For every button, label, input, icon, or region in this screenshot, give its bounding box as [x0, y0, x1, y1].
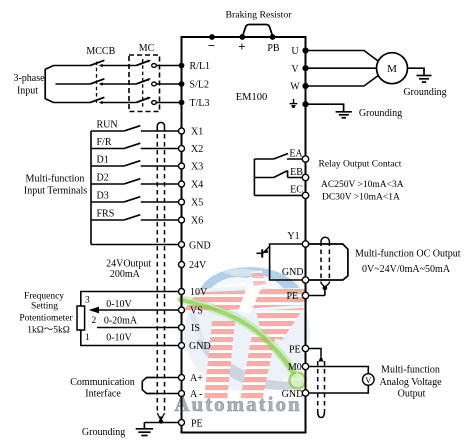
terminal PB [270, 34, 276, 40]
contactor MC pole 2 [136, 78, 181, 86]
svg-text:Setting: Setting [31, 301, 58, 311]
label RUN [97, 119, 118, 130]
switch FRS wire to X6 [91, 215, 182, 220]
svg-text:X4: X4 [191, 180, 203, 191]
svg-text:D2: D2 [97, 172, 109, 183]
switch D1 wire to X3 [91, 161, 182, 166]
svg-text:PE: PE [289, 344, 301, 355]
svg-text:3-phase: 3-phase [13, 73, 45, 84]
label AC250V rating [321, 180, 404, 190]
label minus [208, 38, 215, 53]
switch F/R wire to X2 [91, 143, 182, 148]
label EM100 [236, 92, 268, 103]
svg-text:F/R: F/R [97, 137, 112, 148]
label GND digital [189, 240, 211, 251]
label PB [267, 43, 280, 54]
label MC [139, 43, 155, 54]
terminal U [302, 47, 308, 53]
label IS [191, 323, 200, 334]
wire motor to ground [408, 68, 425, 74]
svg-text:Relay Output Contact: Relay Output Contact [319, 160, 402, 170]
label V [291, 64, 299, 75]
breaker MCCB pole 3 [90, 97, 136, 104]
svg-text:Multi-function OC Output: Multi-function OC Output [355, 248, 461, 259]
label Relay Output Contact [319, 160, 402, 170]
potentiometer RP [77, 306, 85, 330]
label 0-10V top [106, 299, 132, 310]
terminal X6 [179, 217, 185, 223]
terminal PE top right [302, 101, 308, 107]
contactor MC pole 1 [136, 60, 181, 68]
label plus [238, 39, 245, 54]
label EC [290, 184, 303, 195]
wire V to motor [306, 67, 377, 69]
label 10V [190, 287, 208, 298]
label 24V [189, 260, 207, 271]
svg-text:−: − [208, 38, 215, 53]
svg-text:IS: IS [191, 323, 200, 334]
svg-text:EB: EB [290, 167, 303, 178]
label D1 [97, 154, 109, 165]
svg-text:X3: X3 [191, 162, 203, 173]
svg-text:Potentiometer: Potentiometer [19, 314, 73, 324]
label GND analog [189, 341, 211, 352]
motor M [377, 53, 408, 84]
ground motor [417, 76, 432, 83]
label GND analog out [282, 389, 304, 400]
label X3 [191, 162, 203, 173]
wire phase T [54, 102, 91, 104]
3-phase input bracket [45, 66, 53, 103]
label EA [289, 149, 303, 160]
svg-text:X5: X5 [191, 198, 203, 209]
potentiometer wire pin1 to GND [81, 330, 182, 346]
svg-text:AC250V >10mA<3A: AC250V >10mA<3A [321, 180, 404, 190]
svg-text:GND: GND [282, 267, 304, 278]
label X2 [191, 144, 203, 155]
terminal A+ [179, 375, 185, 381]
svg-text:V: V [365, 375, 372, 385]
earth symbol at PE terminal [290, 99, 298, 108]
label Braking Resistor [225, 10, 292, 21]
wire IS [97, 327, 182, 329]
label W [290, 82, 300, 93]
terminal GND digital [179, 242, 185, 248]
terminal IS [179, 325, 185, 331]
svg-text:EA: EA [289, 149, 303, 160]
braking resistor bump [242, 25, 273, 38]
terminal X1 [179, 128, 185, 134]
svg-text:0V~24V/0mA~50mA: 0V~24V/0mA~50mA [362, 264, 451, 275]
label T/L3 [190, 98, 210, 109]
wire W to motor [306, 75, 379, 86]
svg-text:D1: D1 [97, 154, 109, 165]
contactor MC box [129, 55, 160, 112]
svg-text:1kΩ～5kΩ: 1kΩ～5kΩ [27, 326, 70, 336]
svg-text:Communication: Communication [70, 377, 134, 388]
terminal GND analog [179, 343, 185, 349]
terminal plus [239, 34, 245, 40]
svg-text:+: + [238, 39, 245, 54]
svg-text:A+: A+ [190, 373, 203, 384]
label pin 3 [85, 296, 90, 306]
svg-text:PE: PE [286, 291, 298, 302]
junction shield drain on PE [159, 419, 163, 423]
terminal W [302, 83, 308, 89]
wire PE to shield drain [306, 295, 325, 297]
terminal EA [302, 156, 308, 162]
wire phase S [56, 83, 91, 85]
svg-text:24V: 24V [189, 260, 207, 271]
label PE mid [286, 291, 298, 302]
svg-text:W: W [290, 82, 300, 93]
switch D3 wire to X5 [91, 197, 182, 202]
terminal Y1 [302, 241, 308, 247]
wire PE to analog shield [306, 349, 324, 362]
OC output plate external [306, 244, 348, 280]
contactor MC pole 3 [136, 97, 181, 105]
svg-text:A -: A - [190, 389, 203, 400]
label FRS [97, 208, 115, 219]
MC linkage [142, 59, 144, 108]
label OC rating [362, 264, 451, 275]
input switch bus [90, 131, 92, 245]
open collector transistor internal [257, 244, 306, 280]
voltmeter V [363, 374, 375, 386]
svg-text:GND: GND [189, 341, 211, 352]
MCCB linkage [96, 62, 98, 105]
label X6 [191, 216, 203, 227]
label Multi-function Analog Voltage Output [379, 365, 442, 400]
svg-text:0-20mA: 0-20mA [104, 316, 138, 327]
label GND OC [282, 267, 304, 278]
terminal PE analog [302, 345, 308, 351]
breaker MCCB pole 1 [90, 60, 136, 67]
terminal EB [302, 174, 308, 180]
label X4 [191, 180, 203, 191]
svg-text:Input Terminals: Input Terminals [24, 186, 87, 197]
svg-text:S/L2: S/L2 [190, 80, 209, 91]
ground inverter [336, 112, 352, 118]
label PE analog [289, 344, 301, 355]
label Multi-function OC Output [355, 248, 461, 259]
comm interface bracket [142, 378, 155, 394]
terminal PE mid [302, 292, 308, 298]
label PE bottom [191, 418, 203, 429]
terminal 24V [179, 262, 185, 268]
label MCCB [86, 46, 115, 57]
watermark [174, 267, 310, 416]
ground bottom left [136, 423, 153, 436]
label S/L2 [190, 80, 209, 91]
terminal V [302, 65, 308, 71]
label R/L1 [190, 61, 211, 72]
label Grounding inverter [359, 108, 402, 119]
terminal VS [179, 307, 185, 313]
svg-text:Analog Voltage: Analog Voltage [379, 377, 442, 388]
svg-text:200mA: 200mA [110, 269, 141, 280]
terminal X2 [179, 146, 185, 152]
svg-text:Grounding: Grounding [403, 87, 446, 98]
label D2 [97, 172, 109, 183]
svg-text:Grounding: Grounding [82, 427, 125, 438]
svg-text:PB: PB [267, 43, 280, 54]
wire bus to GND [91, 244, 182, 246]
svg-text:10V: 10V [190, 287, 208, 298]
svg-text:PE: PE [191, 418, 203, 429]
svg-text:RUN: RUN [97, 119, 118, 130]
svg-text:M: M [387, 63, 397, 75]
svg-text:0-10V: 0-10V [106, 299, 132, 310]
wire M0 to voltmeter [306, 367, 369, 374]
inverter EM100 box [182, 37, 306, 433]
terminal M0 [302, 363, 308, 369]
svg-text:1: 1 [85, 333, 90, 343]
svg-text:FRS: FRS [97, 208, 115, 219]
terminal X4 [179, 181, 185, 187]
label Grounding bottom [82, 427, 125, 438]
label M [387, 63, 397, 75]
terminal X5 [179, 199, 185, 205]
wire phase R [54, 65, 91, 67]
label Frequency Setting Potentiometer [19, 291, 73, 335]
svg-text:Multi-function: Multi-function [381, 365, 440, 376]
switch RUN wire to X1 [91, 126, 182, 131]
shield cable OC output [321, 237, 329, 295]
breaker MCCB pole 2 [90, 79, 136, 86]
svg-text:Output: Output [398, 388, 426, 399]
svg-text:EM100: EM100 [236, 92, 268, 103]
relay common EC wire [254, 194, 305, 196]
shield cable analog output [318, 361, 325, 418]
wire PE bottom [144, 422, 181, 424]
svg-text:T/L3: T/L3 [190, 98, 210, 109]
label F/R [97, 137, 112, 148]
terminal R/L1 [179, 63, 185, 69]
svg-text:2: 2 [92, 316, 97, 326]
label D3 [97, 190, 109, 201]
svg-text:X1: X1 [191, 127, 203, 138]
wire voltmeter to GND [306, 385, 369, 393]
svg-text:Y1: Y1 [287, 231, 299, 242]
label Grounding motor [403, 87, 446, 98]
svg-text:X2: X2 [191, 144, 203, 155]
label VS [190, 306, 203, 317]
terminal X3 [179, 163, 185, 169]
svg-text:EC: EC [290, 184, 303, 195]
svg-text:V: V [291, 64, 299, 75]
svg-text:Interface: Interface [85, 389, 121, 400]
label pin 2 [92, 316, 97, 326]
relay common vertical [253, 159, 255, 195]
svg-text:DC30V >10mA<1A: DC30V >10mA<1A [322, 193, 400, 203]
terminal 10V [179, 289, 185, 295]
terminal GND analog out [302, 390, 308, 396]
wire U to motor [306, 51, 379, 62]
svg-text:R/L1: R/L1 [190, 61, 211, 72]
svg-text:GND: GND [189, 240, 211, 251]
terminal A- [179, 391, 185, 397]
svg-text:Frequency: Frequency [24, 291, 64, 301]
potentiometer wire pin3 to 10V [81, 292, 182, 307]
label V meter [365, 375, 372, 385]
svg-text:Grounding: Grounding [359, 108, 402, 119]
svg-text:M0: M0 [288, 362, 302, 373]
wire A- [147, 393, 182, 395]
switch D2 wire to X4 [91, 179, 182, 184]
svg-text:X6: X6 [191, 216, 203, 227]
svg-text:GND: GND [282, 389, 304, 400]
label 0-20mA [104, 316, 138, 327]
label X5 [191, 198, 203, 209]
wire A+ [147, 377, 182, 379]
terminal T/L3 [179, 100, 185, 106]
label Y1 [287, 231, 299, 242]
svg-text:MCCB: MCCB [86, 46, 115, 57]
relay contact EA [254, 154, 305, 160]
terminal GND OC [302, 277, 308, 283]
svg-text:U: U [291, 46, 299, 57]
wire PE to ground [306, 104, 344, 111]
svg-text:VS: VS [190, 306, 203, 317]
svg-text:D3: D3 [97, 190, 109, 201]
terminal PE bottom left [179, 420, 185, 426]
svg-text:MC: MC [139, 43, 155, 54]
label Communication Interface [70, 377, 134, 400]
label 0-10V bottom [106, 332, 132, 343]
svg-text:3: 3 [85, 296, 90, 306]
svg-text:0-10V: 0-10V [106, 332, 132, 343]
label U [291, 46, 299, 57]
label Multi-function Input Terminals [24, 174, 87, 197]
label 3-phase Input [13, 73, 45, 97]
terminal minus [209, 34, 215, 40]
terminal S/L2 [179, 81, 185, 87]
label 24VOutput 200mA [106, 259, 151, 280]
terminal EC [302, 192, 308, 198]
label EB [290, 167, 303, 178]
label X1 [191, 127, 203, 138]
shield cable input [157, 122, 164, 421]
label A+ [190, 373, 203, 384]
svg-text:Input: Input [17, 86, 38, 97]
relay contact EB [254, 171, 305, 178]
svg-text:Multi-function: Multi-function [26, 174, 85, 185]
label M0 [288, 362, 302, 373]
svg-text:Braking Resistor: Braking Resistor [225, 10, 292, 21]
label A- [190, 389, 203, 400]
label DC30V rating [322, 193, 400, 203]
wiper arrow to VS [89, 307, 182, 314]
label pin 1 [85, 333, 90, 343]
